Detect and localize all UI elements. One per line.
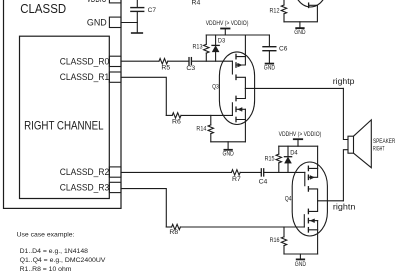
transistor Q3 package ellipse [219,52,254,125]
svg-text:D4: D4 [290,150,298,157]
wire GND pin to C7 [121,22,137,24]
node rightp label [333,77,355,86]
transistor Q3 label [212,84,219,91]
svg-text:RIGHT: RIGHT [373,145,385,152]
svg-text:C6: C6 [279,46,288,53]
diode D3 [212,35,219,61]
svg-text:SPEAKER: SPEAKER [373,138,396,145]
ground under Q3 source [224,142,232,150]
speaker body [348,120,371,168]
transistor package ellipse (clipped, top right) [293,0,328,7]
diode D3 label [218,38,226,45]
svg-text:GND: GND [264,65,276,72]
clipped NMOS source lead (top-right transistor) [309,3,318,7]
Q3 NMOS gate bar [231,103,233,116]
pin CLASSD_R3 [109,182,121,192]
svg-text:GND: GND [223,150,235,157]
Q4 PMOS gate bar [304,172,306,185]
svg-text:rightn: rightn [333,202,356,211]
pin CLASSD_R0 label [60,56,109,67]
capacitor C4 [261,169,263,176]
ground bar under C7 [132,32,143,34]
Q3 NMOS channel contacts [235,96,237,121]
wire C3 to Q3 PMOS gate (node with R13, D3) [191,60,232,62]
svg-text:R4: R4 [192,0,201,6]
pin GND [109,17,121,27]
svg-text:RIGHT CHANNEL: RIGHT CHANNEL [24,118,103,132]
Q3 NMOS body lead with arrow [236,108,245,112]
pin VDDIO (clipped at top) [109,0,121,3]
speaker label RIGHT [373,145,385,152]
svg-text:D1..D4 = e.g., 1N4148: D1..D4 = e.g., 1N4148 [20,248,89,255]
ground under C6 [266,63,274,65]
wire CLASSD_R0 to R5 [121,60,159,62]
Q4 PMOS drain lead down to output [308,189,317,201]
ground label under R12 wire [294,29,306,36]
Q3 NMOS source lead down [236,109,245,142]
node rightn label [333,202,356,211]
svg-text:VDDHV (> VDDIO): VDDHV (> VDDIO) [279,131,322,138]
resistor R13 label [193,43,203,50]
resistor R6 label [172,119,181,126]
CLASSD block title [20,1,66,16]
capacitor C4 label [259,179,268,186]
wire rightp down to speaker + terminal [343,88,348,139]
speaker label SPEAKER [373,138,396,145]
Q3 PMOS source lead and feed from rail [236,35,245,57]
RIGHT CHANNEL label [24,118,103,132]
diode D4 label [290,150,298,157]
svg-text:Q1..Q4 = e.g., DMC2400UV: Q1..Q4 = e.g., DMC2400UV [20,257,106,264]
capacitor C7 [131,0,144,32]
transistor Q4 label [285,196,292,203]
Q3 PMOS channel contacts [235,54,237,79]
svg-text:C7: C7 [148,7,157,14]
Q4 NMOS body lead with arrow [308,219,317,223]
resistor R8 label [169,229,178,236]
wire R12 bottom to clipped transistor source [284,5,317,22]
svg-text:R15: R15 [265,156,275,163]
supply VDDHV label (Q4 side) [279,131,322,138]
svg-text:R14: R14 [196,126,206,133]
pin CLASSD_R1 label [60,72,109,83]
svg-text:C3: C3 [186,65,195,72]
ground under R12 wire [296,22,304,28]
svg-text:R6: R6 [172,119,181,126]
svg-text:Use case example:: Use case example: [17,231,75,238]
svg-text:R8: R8 [169,229,178,236]
pin VDDIO label (clipped) [87,0,107,5]
wire rightn up to speaker - terminal [343,150,348,201]
resistor R7 [231,170,240,175]
resistor R15 label [265,156,275,163]
wire CLASSD_R2 to R7 [121,171,231,173]
resistor R12 [281,0,286,22]
svg-text:R13: R13 [193,43,203,50]
ground label under C6 [264,65,276,72]
wire CLASSD_R1 across and down to R6 [121,77,166,115]
svg-text:R5: R5 [161,64,170,71]
capacitor C7 label [148,7,157,14]
svg-text:GND: GND [295,261,307,268]
supply VDDHV bar symbol (Q3 side) [221,29,229,36]
RIGHT CHANNEL inner box [20,36,110,198]
svg-text:rightp: rightp [333,77,355,86]
pin CLASSD_R3 label [60,183,109,194]
resistor R14 label [196,126,206,133]
pin CLASSD_R2 label [60,167,109,178]
svg-text:CLASSD_R2: CLASSD_R2 [60,167,109,178]
Q3 PMOS body lead with arrow [236,57,245,67]
supply VDDHV bar symbol (Q4 side) [294,139,302,146]
svg-text:Q4: Q4 [285,196,292,203]
resistor R16 label [270,237,280,244]
wire Q3 output to rightp corner [245,87,343,89]
svg-text:R1..R8 = 10 ohm: R1..R8 = 10 ohm [20,266,72,273]
ground label under Q3 source [223,150,235,157]
Q4 NMOS drain lead up to output [308,201,317,212]
svg-text:R7: R7 [232,176,241,183]
wire R8 to Q4 NMOS gate (node with R16) [180,226,304,228]
svg-text:D3: D3 [218,38,226,45]
Q4 NMOS channel contacts [307,209,309,232]
wire VDDHV rail (Q3 side) [206,34,269,36]
svg-text:Q3: Q3 [212,84,219,91]
svg-text:VDDHV (> VDDIO): VDDHV (> VDDIO) [206,20,249,27]
Q4 PMOS channel contacts [307,166,309,191]
resistor R6 [166,113,181,118]
svg-text:CLASSD: CLASSD [20,1,66,16]
transistor Q4 package ellipse [292,162,327,236]
resistor R13 [204,35,209,61]
wire R7 to C4 [240,171,261,173]
resistor R5 [159,59,168,64]
wire Q3 NMOS source to R14 bottom [211,141,246,143]
svg-text:VDDIO: VDDIO [87,0,107,5]
use case note text [17,231,106,272]
svg-text:GND: GND [87,17,107,28]
resistor R5 label [161,64,170,71]
resistor R15 [276,146,281,172]
capacitor C6 label [279,46,288,53]
svg-text:R12: R12 [270,8,280,15]
svg-text:R16: R16 [270,237,280,244]
Q4 NMOS source lead down [308,221,317,254]
capacitor C3 label [186,65,195,72]
svg-text:GND: GND [294,29,306,36]
Q4 NMOS gate bar [303,215,305,227]
resistor R16 [281,227,286,254]
CLASSD IC outer box [4,0,122,208]
wire VDDHV rail (Q4 side) [279,145,318,147]
wire Q4 output to rightn corner [318,200,344,202]
ground label under Q4 source [295,261,307,268]
Q3 PMOS gate bar [231,61,233,74]
wire R5 to C3 [168,60,189,62]
resistor R7 label [232,176,241,183]
Q4 PMOS body lead with arrow [308,168,317,179]
pin CLASSD_R0 [109,56,121,66]
pin CLASSD_R2 [109,167,121,177]
svg-text:CLASSD_R0: CLASSD_R0 [60,56,109,67]
capacitor C3 [189,58,191,65]
Q4 PMOS source lead and feed from rail [308,146,317,168]
ground under Q4 source [297,254,305,259]
pin GND label [87,17,107,28]
svg-text:C4: C4 [259,179,268,186]
pin CLASSD_R1 [109,72,121,82]
resistor R8 [166,224,180,229]
Q3 PMOS drain lead down to output [236,77,245,88]
resistor R14 [208,115,213,141]
wire C4 to Q4 PMOS gate (node with R15, D4) [264,171,305,173]
svg-text:CLASSD_R3: CLASSD_R3 [60,183,109,194]
wire Q4 NMOS source to R16 bottom [284,253,318,255]
capacitor C6 [263,35,276,63]
resistor R4 label (resistor clipped above) [192,0,201,6]
wire R6 to Q3 NMOS gate (node with R14) [181,114,232,116]
diode D4 [284,146,291,172]
resistor R12 label [270,8,280,15]
wire CLASSD_R3 across and down to R8 [121,189,166,227]
Q3 NMOS drain lead up to output [236,88,245,98]
svg-text:CLASSD_R1: CLASSD_R1 [60,72,109,83]
supply VDDHV label (Q3 side) [206,20,249,27]
